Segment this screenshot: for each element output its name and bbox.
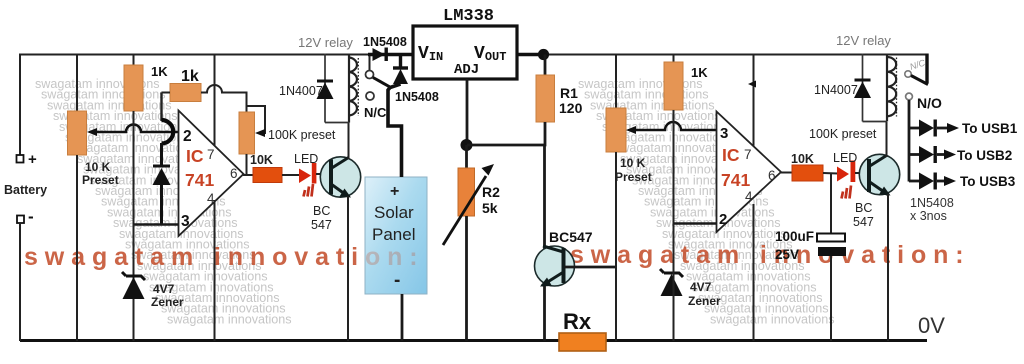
svg-text:ADJ: ADJ	[454, 62, 479, 78]
wire U1 pin7 supply line	[214, 54, 216, 147]
svg-text:0V: 0V	[918, 313, 945, 338]
wire P3 wiper to U2 pin3 with jump over 1K line	[635, 122, 716, 130]
node relay RL2 N/O contact	[906, 93, 913, 100]
svg-text:-: -	[394, 270, 400, 291]
wire USB branch 1	[909, 127, 920, 130]
svg-text:swagatam innovations: swagatam innovations	[167, 312, 292, 326]
wire zener Z1 branch line to 0V	[133, 224, 135, 341]
relay RL1 coil	[349, 54, 358, 123]
svg-text:1k: 1k	[181, 68, 199, 85]
wire top positive rail left section	[20, 54, 373, 56]
svg-text:547: 547	[853, 215, 874, 229]
svg-text:swagatam innovation:: swagatam innovation:	[24, 243, 425, 271]
wire 10K preset P3 top lead	[615, 54, 617, 110]
svg-text:swagatam innovations: swagatam innovations	[710, 312, 835, 326]
svg-text:12V relay: 12V relay	[836, 33, 891, 48]
resistor R4 1k horizontal	[170, 84, 201, 102]
svg-text:N/C: N/C	[364, 105, 387, 120]
svg-text:741: 741	[185, 170, 214, 190]
svg-text:To USB2: To USB2	[957, 148, 1012, 163]
svg-text:LM338: LM338	[443, 7, 494, 26]
svg-text:+: +	[390, 183, 399, 200]
wire bottom 0V rail	[20, 339, 927, 342]
svg-text:7: 7	[744, 147, 752, 162]
R2 rheostat arrow	[443, 164, 494, 245]
LED LED1	[299, 163, 316, 197]
transistor Q1 BC547	[320, 157, 360, 198]
svg-text:4V7: 4V7	[153, 282, 175, 296]
wire U2 pin2 input wire	[674, 222, 717, 224]
LED LED2	[837, 161, 855, 199]
watermark gray text block right	[578, 77, 835, 326]
zener Z1 4V7 (cathode up)	[122, 272, 145, 299]
preset P3 10K body	[606, 108, 626, 152]
svg-text:1N4007: 1N4007	[814, 83, 858, 97]
wire LED1 to Q1 base	[316, 173, 331, 175]
svg-text:6: 6	[768, 168, 776, 183]
svg-text:100K preset: 100K preset	[268, 128, 336, 142]
svg-text:R2: R2	[482, 184, 500, 200]
zener Z2 4V7 right (cathode up)	[660, 269, 683, 296]
svg-text:10 K: 10 K	[620, 156, 646, 170]
svg-text:1K: 1K	[151, 64, 168, 79]
transistor Q3 BC547	[859, 154, 899, 195]
wire Q2 emitter to 0V	[543, 286, 546, 341]
preset P3 wiper arrow	[626, 126, 637, 134]
svg-text:Rx: Rx	[563, 309, 592, 334]
resistor Rx body	[559, 333, 606, 351]
capacitor C1 100uF 25V	[817, 234, 846, 257]
relay RL2 coil	[887, 54, 897, 122]
svg-text:25V: 25V	[775, 247, 799, 262]
wire solar feed from D4 and relay arm down to panel	[388, 84, 402, 177]
wire U1 output pin6	[243, 174, 254, 176]
wire P2 bottom lead to output node	[246, 154, 248, 175]
svg-text:IC: IC	[722, 145, 740, 165]
wire R1 top lead	[544, 55, 547, 77]
wire R2 bottom to 0V	[465, 216, 468, 341]
node battery + terminal	[17, 155, 24, 163]
wire relay RL1 diode branch left	[324, 54, 326, 123]
wire relay RL1 pole stub from rail	[369, 56, 371, 70]
svg-text:BC: BC	[313, 204, 330, 218]
junction marker on U2 pin7 line	[748, 81, 756, 88]
preset P1 wiper arrow	[87, 128, 99, 136]
diode D3 1N5408 series (anode left)	[373, 48, 388, 62]
wire 10K preset P1 bottom lead	[76, 155, 78, 341]
node ADJ junction dot	[461, 139, 473, 151]
regulator U3 LM338 box	[413, 26, 517, 79]
svg-text:BC: BC	[855, 201, 872, 215]
wire Q2 collector up to ADJ node	[543, 145, 546, 249]
wire top positive rail right section	[543, 54, 928, 56]
resistor R2 5k body	[458, 168, 475, 216]
wire LM338 VOUT to output node	[517, 53, 545, 57]
wire R2 top lead	[465, 145, 468, 168]
diode D2 1N4007 across relay coil (cathode up)	[317, 81, 334, 99]
svg-text:100K preset: 100K preset	[809, 127, 877, 141]
diode D7 1N5408 USB2	[919, 146, 956, 163]
relay RL2 armature arm	[911, 76, 928, 85]
wire USB branch 2	[909, 153, 920, 156]
wire USB branch 3	[909, 180, 920, 183]
op-amp U1 triangle	[179, 111, 244, 237]
svg-text:1N4007: 1N4007	[279, 84, 323, 98]
svg-text:7: 7	[207, 147, 215, 162]
wire N/O distribution line	[908, 100, 911, 182]
svg-text:2: 2	[183, 128, 192, 145]
diode D6 1N5408 USB1	[919, 120, 959, 137]
node relay RL1 pole contact	[366, 71, 374, 79]
wire 10K preset P1 top lead	[76, 54, 78, 113]
svg-text:1K: 1K	[691, 65, 708, 80]
svg-text:LED: LED	[294, 152, 318, 166]
wire Q3 collector up to relay RL2	[886, 122, 888, 157]
wire battery negative lead	[19, 223, 21, 341]
wire resistor 1K R3 top lead	[133, 54, 135, 67]
svg-text:Preset: Preset	[615, 170, 652, 184]
svg-text:5k: 5k	[482, 200, 498, 216]
wire capacitor C1 bottom lead	[830, 256, 832, 341]
resistor R6 1K vertical right	[664, 62, 683, 110]
wire resistor R3 bottom lead down to pin3 node	[133, 111, 135, 225]
preset P1 10K body	[68, 111, 87, 155]
resistor R5 10K output	[253, 168, 282, 183]
svg-text:1N5408: 1N5408	[395, 90, 439, 104]
wire Z2 to 0V	[673, 224, 675, 341]
svg-text:1N5408: 1N5408	[910, 196, 954, 210]
svg-text:10K: 10K	[250, 153, 273, 167]
node relay RL2 pole contact	[905, 71, 911, 77]
node relay RL1 N/C contact	[366, 92, 374, 100]
wire Q1 emitter down to 0V	[347, 196, 349, 341]
svg-text:IC: IC	[186, 146, 204, 166]
svg-text:3: 3	[720, 125, 728, 142]
resistor R3 1K vertical	[124, 65, 143, 111]
svg-text:LED: LED	[833, 151, 857, 165]
wire P2 wiper loop	[247, 106, 266, 133]
node battery - terminal	[17, 216, 24, 224]
svg-text:-: -	[28, 207, 34, 226]
wire relay RL2 coil bottom	[863, 121, 888, 123]
wire relay RL1 coil bottom	[325, 122, 349, 124]
diode D5 1N4007 across relay RL2 coil (cathode up)	[854, 80, 871, 98]
wire U2 pin7 supply line	[753, 54, 755, 147]
svg-text:4V7: 4V7	[690, 280, 712, 294]
svg-text:6: 6	[230, 166, 238, 181]
diode D8 1N5408 USB3	[919, 173, 956, 190]
svg-text:To USB3: To USB3	[960, 174, 1016, 189]
wire resistor R6 1K top lead	[673, 54, 675, 64]
wire top rail thick segment into LM338	[368, 53, 413, 57]
wire diode D1 to pin3 wire	[160, 185, 163, 225]
svg-text:Zener: Zener	[151, 295, 184, 309]
svg-text:To USB1: To USB1	[962, 121, 1018, 136]
watermark gray text block left	[35, 77, 292, 326]
preset P2 100K body	[239, 112, 255, 154]
wire R4 right lead to feedback preset with jump over pin7 line	[201, 85, 247, 112]
transistor Q2 BC547	[535, 246, 575, 287]
svg-text:Zener: Zener	[688, 294, 721, 308]
wire Q2 base to Rx sense line	[565, 266, 618, 269]
resistor R1 120	[536, 75, 555, 122]
svg-text:N/O: N/O	[917, 95, 942, 111]
wire Q3 emitter down to 0V	[887, 194, 889, 341]
wire LM338 ADJ lead	[466, 79, 469, 145]
wire U1 pin3 input wire	[134, 223, 179, 225]
solar panel	[365, 177, 427, 294]
wire relay RL2 diode branch left	[862, 54, 864, 122]
diode D4 1N5408 solar blocking (cathode up)	[393, 56, 408, 84]
wire P3 bottom lead to Rx sense junction and 0V	[615, 152, 617, 341]
svg-text:R1: R1	[560, 85, 578, 101]
wire solar panel negative to 0V	[401, 294, 404, 341]
svg-text:x 3nos: x 3nos	[910, 209, 947, 223]
op-amp U2 triangle	[717, 112, 782, 233]
wire R1 bottom to ADJ node	[467, 122, 545, 145]
svg-text:Solar: Solar	[374, 203, 414, 222]
svg-text:Battery: Battery	[4, 183, 47, 197]
svg-text:100uF: 100uF	[775, 229, 814, 244]
wire R5 to LED1	[282, 174, 300, 176]
svg-text:Preset: Preset	[82, 173, 119, 187]
wire battery positive lead	[19, 54, 21, 156]
svg-text:547: 547	[311, 218, 332, 232]
preset P2 wiper arrow	[255, 129, 265, 137]
wire R4 left lead	[162, 92, 171, 94]
relay RL1 armature arm	[373, 78, 390, 88]
wire Q1 collector up to relay RL1	[348, 122, 350, 159]
svg-text:10K: 10K	[791, 152, 814, 166]
node output junction dot	[538, 49, 549, 60]
wire LED2 to Q3 base	[855, 172, 869, 174]
wire R6 bottom lead down to pin2 node	[673, 110, 675, 224]
wire relay RL2 common drop from rail	[925, 54, 928, 84]
wire U2 pin4 ground line	[753, 204, 755, 341]
diode D1 feedback (vertical, cathode up)	[153, 166, 171, 185]
svg-text:2: 2	[719, 211, 727, 228]
wire R7 to LED2	[823, 172, 838, 175]
svg-text:120: 120	[559, 100, 583, 116]
wire U2 output pin6	[781, 172, 793, 174]
resistor R7 10K output right	[792, 165, 823, 181]
svg-text:3: 3	[181, 213, 190, 230]
svg-text:1N5408: 1N5408	[363, 35, 407, 49]
svg-text:swagatam innovation:: swagatam innovation:	[570, 241, 971, 269]
wire feedback line down from R4 with C jump over pin2 wire	[160, 93, 162, 122]
svg-text:BC547: BC547	[549, 229, 593, 245]
wire U1 pin4 ground line	[214, 200, 216, 341]
svg-text:+: +	[28, 151, 37, 168]
svg-text:Panel: Panel	[372, 225, 415, 244]
svg-text:10 K: 10 K	[85, 160, 111, 174]
wire capacitor C1 top lead	[830, 173, 832, 234]
svg-text:4: 4	[745, 189, 753, 204]
svg-text:741: 741	[721, 170, 750, 190]
solar panel face and labels	[366, 178, 427, 294]
svg-text:12V relay: 12V relay	[298, 35, 353, 50]
wire P1 wiper to op-amp U1 pin2 with jump over 1K line	[96, 125, 178, 133]
